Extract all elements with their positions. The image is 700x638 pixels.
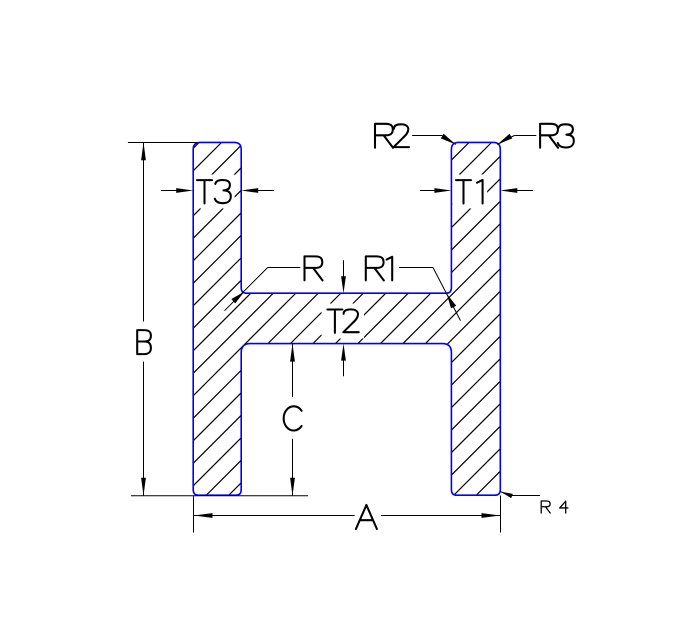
B arrow down	[141, 478, 146, 496]
label R4	[541, 501, 550, 513]
text background masks	[194, 175, 235, 209]
R1 leader arrowhead	[447, 294, 457, 309]
label R	[305, 256, 323, 280]
label T2	[327, 310, 342, 333]
C arrow down	[290, 478, 295, 496]
R leader	[268, 267, 301, 269]
label T1	[456, 180, 471, 203]
R2 leader arrowhead	[441, 134, 456, 145]
T3 arrow right-pointing	[176, 188, 193, 193]
dimension B line	[143, 143, 145, 322]
R leader arrowhead	[231, 292, 244, 304]
label C	[284, 406, 302, 430]
T3 arrow lines	[161, 190, 179, 192]
B arrow up	[141, 142, 146, 160]
T1 arrow lines	[420, 190, 436, 192]
T2 arrow lines	[343, 260, 345, 278]
hatching (section lines)	[0, 100, 700, 520]
dimension B extension line top	[128, 142, 197, 144]
dimension C line	[292, 344, 294, 397]
label R3	[540, 124, 558, 148]
label T3	[197, 180, 212, 203]
R4 leader arrowhead	[500, 492, 513, 499]
label R2	[375, 124, 393, 148]
label B	[137, 330, 151, 354]
label A	[356, 505, 377, 529]
R3 leader arrowhead	[497, 134, 512, 145]
T2 arrow down-pointing	[341, 276, 346, 293]
label R1	[366, 256, 384, 280]
H-beam cross-section profile	[193, 142, 500, 495]
T2 arrow up-pointing	[341, 344, 346, 361]
R2 leader	[412, 135, 442, 137]
dimension A extension line left	[193, 496, 195, 533]
dimension A line	[194, 515, 355, 517]
profile outline	[193, 142, 500, 495]
dimension A extension line right	[500, 496, 502, 533]
C arrow up	[290, 344, 295, 362]
T3 arrow left-pointing	[241, 188, 258, 193]
T1 arrow right-pointing	[434, 188, 451, 193]
R1 leader	[399, 267, 433, 269]
R3 leader	[514, 135, 536, 137]
dimension B / C extension line bottom	[131, 495, 308, 497]
A arrow left	[194, 513, 213, 518]
R4 leader	[500, 492, 512, 496]
A arrow right	[482, 513, 501, 518]
T1 arrow left-pointing	[500, 188, 517, 193]
